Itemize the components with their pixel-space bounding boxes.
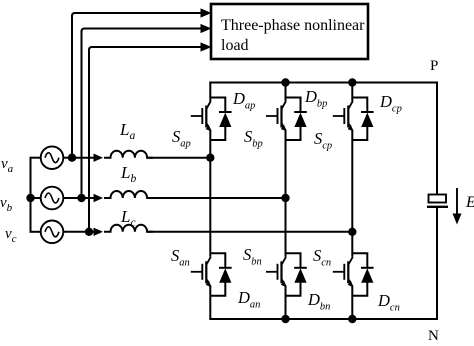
svg-text:E: E — [465, 194, 474, 211]
wire cell loop S_bp/D_bp — [286, 98, 301, 141]
wire phase b inductor to leg — [147, 197, 286, 199]
diode D_an — [219, 268, 232, 283]
diode D_bn — [294, 268, 307, 283]
junction phase c at leg — [348, 228, 356, 236]
arrowhead feeder b into load — [201, 24, 212, 33]
junction bottom bus leg b — [281, 315, 289, 323]
wire leg into cell S_an — [209, 158, 211, 257]
junction tap b — [77, 194, 85, 202]
wire phase a inductor to leg — [147, 157, 210, 159]
junction phase a at leg — [206, 154, 214, 162]
svg-text:load: load — [221, 37, 249, 54]
diode D_ap — [219, 112, 232, 127]
wire leg out of cell S_bn — [285, 286, 287, 319]
wire cell loop S_ap/D_ap — [210, 98, 225, 141]
wire leg out of cell S_an — [209, 286, 211, 319]
wire cell loop S_cp/D_cp — [352, 98, 367, 141]
wire phase b tap to inductor — [82, 197, 97, 199]
wire leg out of cell S_bp — [285, 131, 287, 199]
wire cell loop S_an/D_an — [210, 253, 225, 295]
wire leg out of cell S_cp — [351, 131, 353, 232]
arrow E (dc voltage) — [456, 188, 458, 216]
wire leg into cell S_cp — [351, 83, 353, 102]
wire phase c inductor to leg — [147, 231, 352, 233]
diode D_cp — [361, 112, 374, 127]
wire phase a tap to inductor — [72, 157, 96, 159]
arrowhead feeder c into load — [201, 42, 212, 51]
arrowhead phase c — [94, 228, 104, 236]
source v_b (AC) — [41, 187, 64, 210]
junction bottom bus leg c — [348, 315, 356, 323]
arrowhead phase b — [94, 194, 104, 202]
inductor L_c — [104, 225, 153, 232]
wire phase c tap to inductor — [89, 231, 96, 233]
junction phase b at leg — [281, 194, 289, 202]
wire right dc link top — [436, 82, 438, 195]
wire right dc link bottom — [436, 207, 438, 320]
load box: Three-phase nonlinear load — [211, 4, 368, 59]
wire bottom dc bus (N rail) — [209, 318, 438, 320]
diode D_cn — [361, 268, 374, 283]
wire leg into cell S_cn — [351, 232, 353, 257]
transistor S_an (IGBT) — [191, 257, 211, 287]
wire feeder phase c to load — [89, 47, 201, 232]
svg-text:N: N — [428, 328, 439, 341]
wire leg into cell S_bp — [285, 83, 287, 102]
inductor L_a — [104, 151, 153, 158]
source v_c (AC) — [41, 221, 64, 244]
wire feeder phase b to load — [82, 29, 202, 199]
wire leg out of cell S_ap — [209, 131, 211, 158]
source v_a (AC) — [41, 146, 64, 169]
wire source c leads — [30, 231, 41, 233]
inductor L_b — [104, 191, 153, 198]
transistor S_bp (IGBT) — [266, 101, 286, 131]
wire feeder phase a to load — [72, 13, 201, 158]
wire top dc bus (P rail) — [209, 82, 438, 84]
capacitor C (dc link) — [429, 195, 447, 203]
wire leg out of cell S_cn — [351, 286, 353, 319]
svg-text:Three-phase nonlinear: Three-phase nonlinear — [221, 17, 365, 34]
wire source a leads — [30, 157, 41, 159]
junction tap a — [68, 154, 76, 162]
transistor S_cp (IGBT) — [333, 101, 353, 131]
wire leg into cell S_bn — [285, 198, 287, 257]
junction top bus leg b — [281, 78, 289, 86]
transistor S_ap (IGBT) — [191, 101, 211, 131]
arrowhead feeder a into load — [201, 8, 212, 17]
wire left neutral bus — [30, 158, 32, 232]
arrowhead phase a — [94, 154, 104, 162]
wire leg into cell S_ap — [209, 83, 211, 102]
transistor S_cn (IGBT) — [333, 257, 353, 287]
junction tap c — [85, 228, 93, 236]
wire cell loop S_cn/D_cn — [352, 253, 367, 295]
junction neutral-b — [26, 194, 34, 202]
svg-text:P: P — [430, 58, 438, 74]
wire cell loop S_bn/D_bn — [286, 253, 301, 295]
junction top bus leg c — [348, 78, 356, 86]
wire source b leads — [30, 197, 41, 199]
diode D_bp — [294, 112, 307, 127]
transistor S_bn (IGBT) — [266, 257, 286, 287]
